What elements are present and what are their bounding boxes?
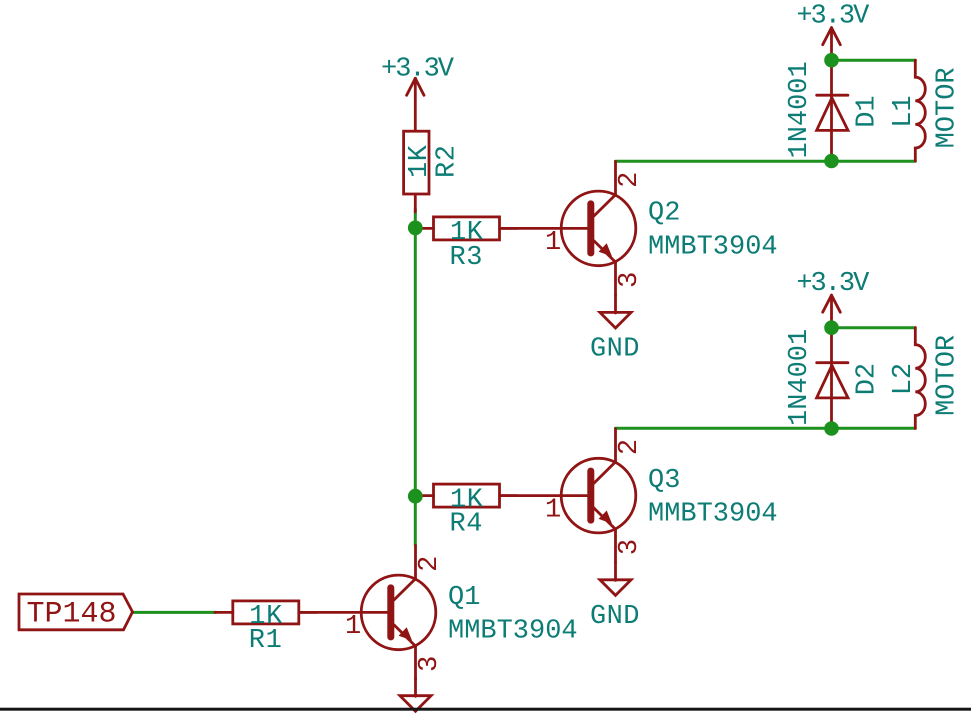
svg-text:R2: R2 xyxy=(432,145,462,178)
svg-text:D2: D2 xyxy=(853,363,883,395)
svg-text:R3: R3 xyxy=(450,243,483,273)
svg-text:TP148: TP148 xyxy=(27,597,117,631)
svg-text:R4: R4 xyxy=(450,509,483,539)
svg-text:Q3: Q3 xyxy=(648,466,680,496)
svg-text:L2: L2 xyxy=(889,363,919,395)
svg-text:R1: R1 xyxy=(249,626,282,656)
svg-text:1K: 1K xyxy=(405,144,435,178)
svg-text:+3.3V: +3.3V xyxy=(381,54,455,84)
svg-text:L1: L1 xyxy=(889,95,919,127)
svg-text:MOTOR: MOTOR xyxy=(932,335,962,416)
svg-text:D1: D1 xyxy=(853,95,883,127)
svg-text:MOTOR: MOTOR xyxy=(932,67,962,148)
svg-text:Q1: Q1 xyxy=(448,583,480,613)
svg-text:Q2: Q2 xyxy=(648,199,680,229)
